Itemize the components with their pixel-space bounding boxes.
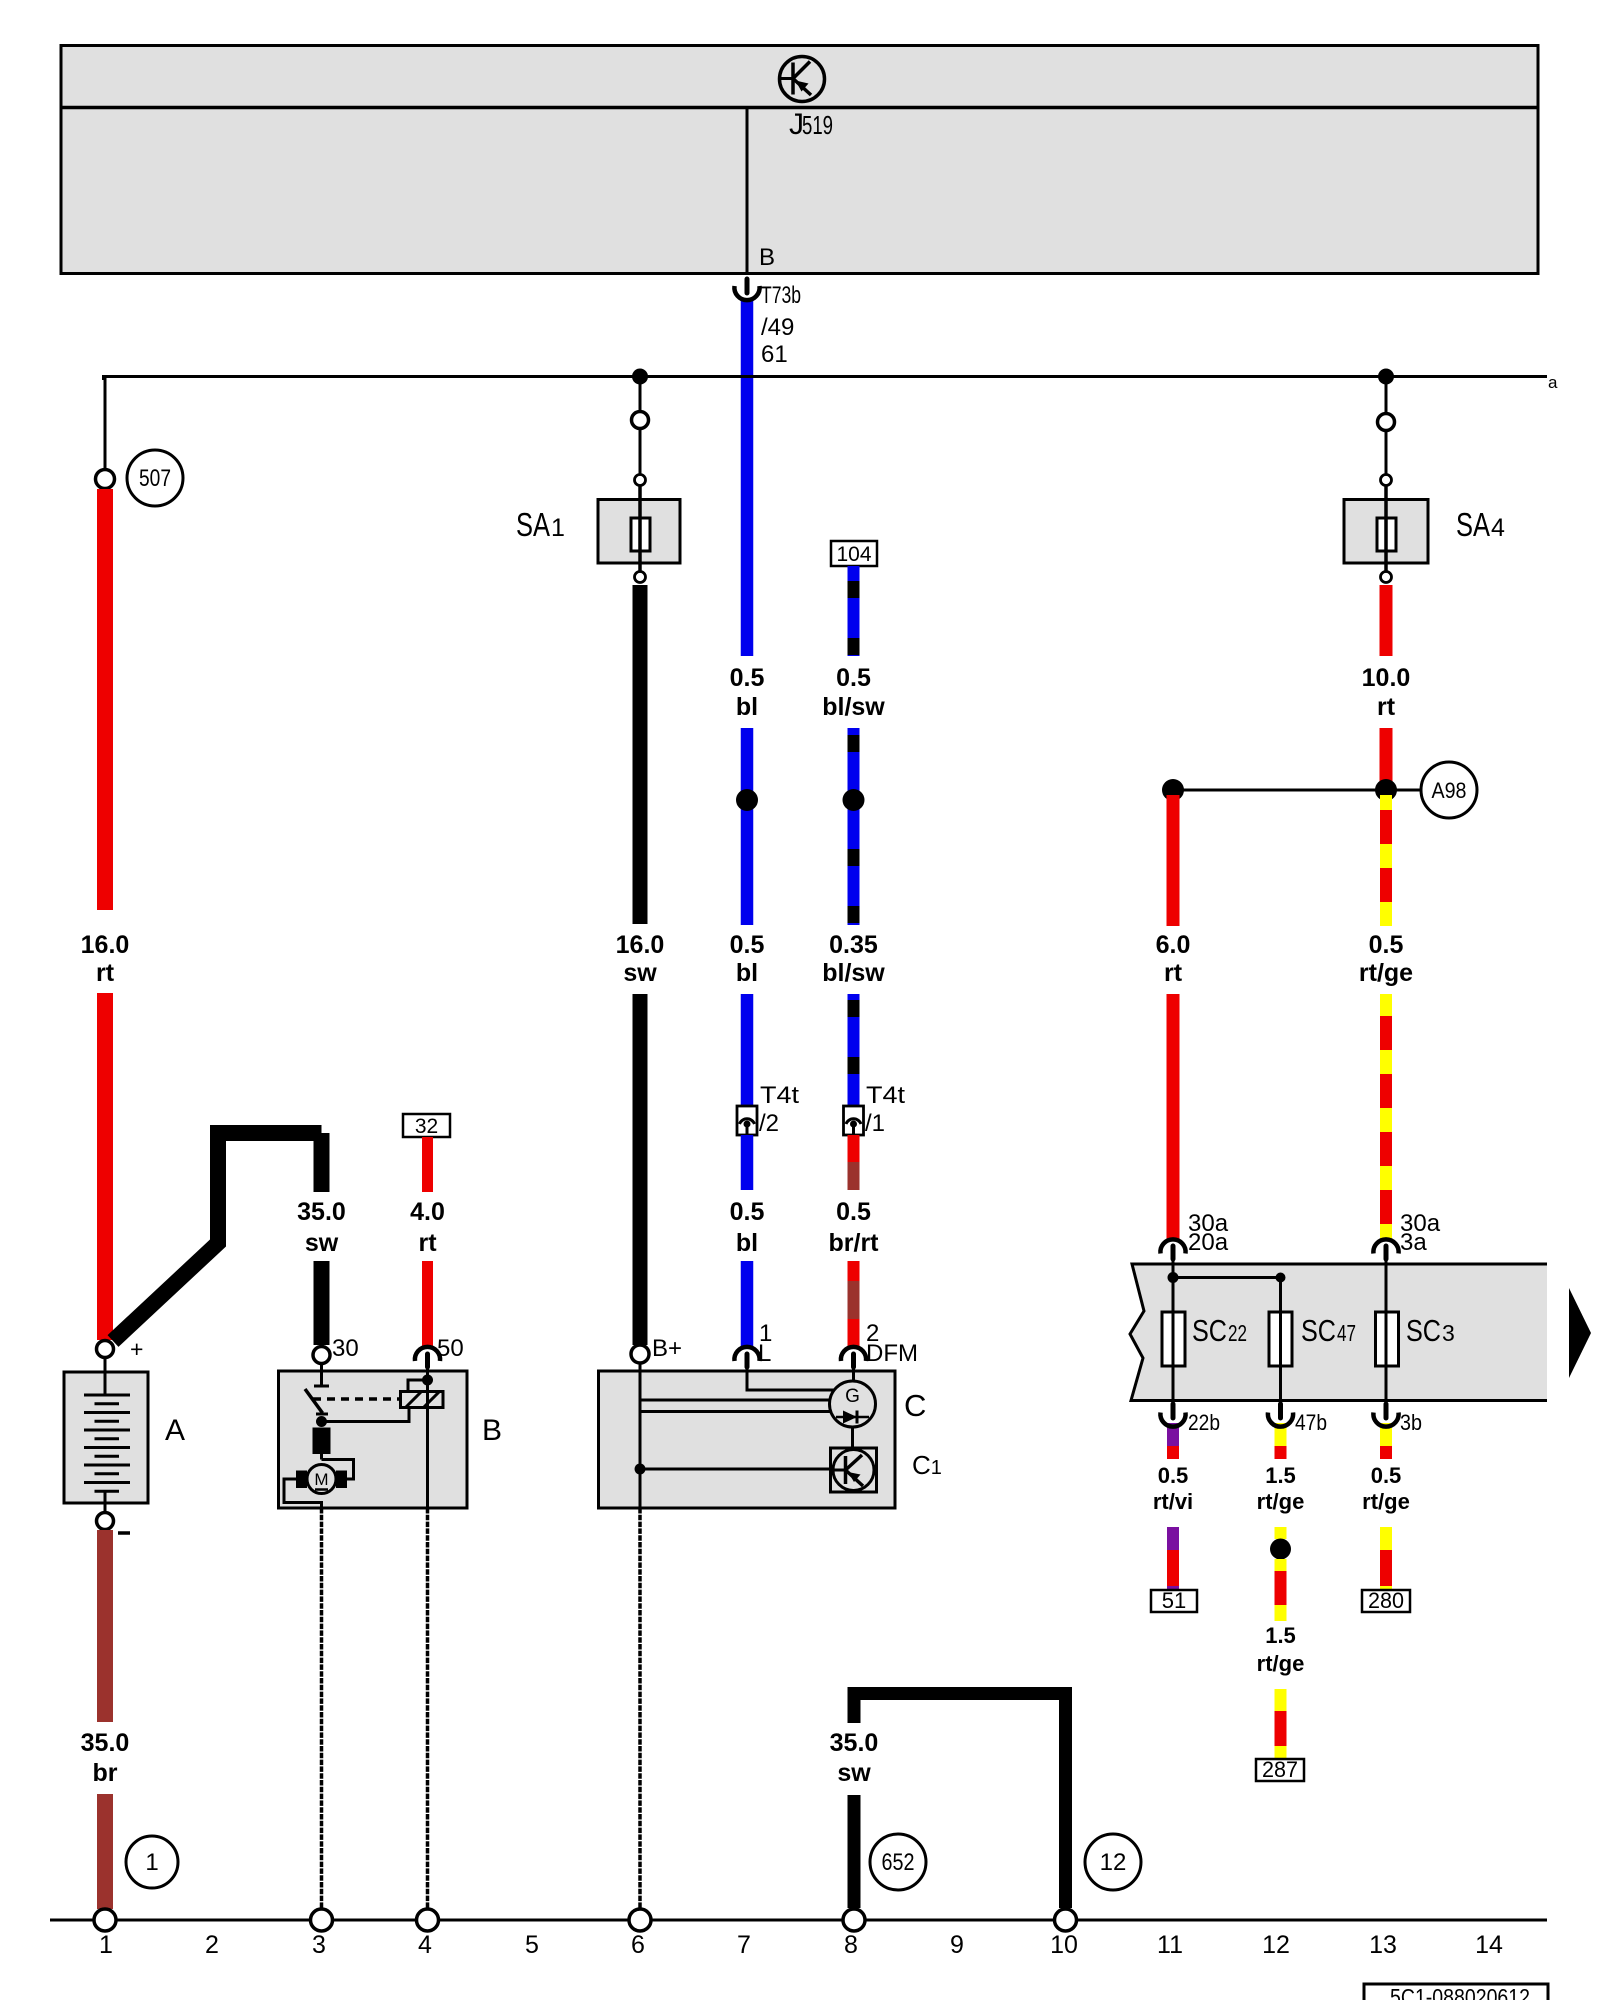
- svg-text:SC: SC: [1406, 1313, 1441, 1348]
- svg-text:0.5: 0.5: [836, 1198, 871, 1226]
- svg-text:L: L: [758, 1340, 771, 1367]
- svg-text:12: 12: [1262, 1931, 1290, 1959]
- svg-text:507: 507: [139, 465, 171, 492]
- svg-text:3b: 3b: [1400, 1410, 1422, 1435]
- ground rail terminal 4: [417, 1909, 439, 1931]
- svg-text:287: 287: [1262, 1757, 1298, 1782]
- wire 0.5 bl from J519 B: [741, 298, 754, 656]
- svg-text:B+: B+: [652, 1335, 682, 1362]
- wire 0.5 bl mid: [741, 728, 754, 925]
- svg-text:3: 3: [1442, 1320, 1455, 1346]
- voltage regulator C1 symbol: [831, 1448, 877, 1492]
- svg-text:61: 61: [761, 341, 788, 368]
- svg-text:13: 13: [1369, 1931, 1397, 1959]
- generator G symbol: [830, 1381, 876, 1427]
- svg-text:B: B: [482, 1414, 502, 1447]
- ground rail terminal 1: [94, 1909, 116, 1931]
- relay contact wire: [322, 1408, 410, 1422]
- wire 35.0 sw lower: [314, 1261, 330, 1345]
- svg-text:50: 50: [437, 1335, 464, 1362]
- fuse SC47 element: [1269, 1312, 1292, 1366]
- svg-text:bl: bl: [736, 1229, 758, 1257]
- svg-text:10: 10: [1050, 1931, 1078, 1959]
- svg-text:C: C: [904, 1388, 926, 1423]
- svg-text:1: 1: [551, 514, 565, 542]
- svg-text:30: 30: [332, 1335, 359, 1362]
- connector T4t/2: [737, 1106, 757, 1135]
- wire G to regulator: [851, 1427, 854, 1448]
- wire br/rt to pin DFM: [848, 1261, 860, 1281]
- svg-text:11: 11: [1157, 1931, 1183, 1959]
- SA4 upper lead: [1385, 384, 1388, 413]
- ground rail terminal 10: [1055, 1909, 1077, 1931]
- svg-text:rt/vi: rt/vi: [1153, 1489, 1193, 1514]
- junction dot on B+ wire: [635, 1464, 646, 1475]
- svg-text:0.35: 0.35: [829, 931, 878, 959]
- svg-text:M: M: [314, 1470, 328, 1489]
- designation circle 507: [127, 450, 183, 506]
- junction on rail at SA1: [632, 369, 648, 385]
- wire 1.5 rt/ge stub: [1275, 1423, 1287, 1446]
- box 32: [403, 1114, 450, 1137]
- wire alternator B+ to rail: [638, 1508, 642, 1909]
- ground rail terminal 8: [843, 1909, 865, 1931]
- svg-text:A98: A98: [1432, 778, 1467, 803]
- wire left drop to terminal 507: [104, 377, 107, 471]
- wire 10.0 rt lower: [1380, 728, 1393, 790]
- wire 1.5 rt/ge mid: [1275, 1527, 1287, 1539]
- wire 4.0 rt upper: [422, 1137, 433, 1192]
- svg-text:35.0: 35.0: [830, 1729, 879, 1757]
- svg-text:G: G: [845, 1386, 860, 1407]
- svg-text:51: 51: [1162, 1588, 1186, 1613]
- wire from divider to terminal B: [746, 108, 749, 273]
- svg-text:32: 32: [415, 1115, 438, 1138]
- svg-text:3a: 3a: [1400, 1229, 1427, 1256]
- svg-text:A: A: [165, 1414, 185, 1447]
- fuse SA4 box: [1344, 500, 1428, 564]
- svg-text:0.5: 0.5: [1158, 1463, 1189, 1488]
- svg-text:22b: 22b: [1188, 1410, 1220, 1435]
- wire through SC22: [1172, 1261, 1175, 1402]
- junction A98 node: [1375, 779, 1397, 801]
- svg-text:3: 3: [312, 1931, 326, 1959]
- wire 16.0 sw lower: [633, 994, 648, 1345]
- svg-text:4: 4: [1491, 514, 1505, 542]
- svg-text:20a: 20a: [1188, 1229, 1229, 1256]
- svg-text:SC: SC: [1301, 1313, 1336, 1348]
- svg-text:14: 14: [1475, 1931, 1503, 1959]
- svg-text:rt/ge: rt/ge: [1257, 1651, 1305, 1676]
- svg-text:bl: bl: [736, 693, 758, 721]
- box 280: [1362, 1590, 1410, 1612]
- part number box: [1364, 1984, 1548, 2000]
- alternator DFM internal wire: [852, 1364, 855, 1381]
- wire 6.0 rt upper: [1167, 795, 1180, 926]
- svg-text:rt: rt: [1377, 693, 1396, 721]
- svg-text:bl/sw: bl/sw: [822, 959, 885, 987]
- relay switch node: [316, 1416, 327, 1427]
- relay motor ground path: [284, 1479, 322, 1508]
- svg-text:7: 7: [737, 1931, 751, 1959]
- svg-text:16.0: 16.0: [616, 931, 665, 959]
- svg-text:0.5: 0.5: [1369, 931, 1404, 959]
- svg-text:5: 5: [525, 1931, 539, 1959]
- alternator stator leads: [640, 1399, 830, 1402]
- wire bl/sw mid: [848, 728, 860, 925]
- J519 box divider line: [61, 106, 1538, 110]
- svg-text:+: +: [130, 1336, 143, 1362]
- connector arc right: [1373, 1239, 1398, 1253]
- label minus: [118, 1531, 130, 1535]
- svg-text:652: 652: [882, 1849, 915, 1876]
- relay series element: [313, 1428, 331, 1455]
- svg-text:0.5: 0.5: [730, 931, 765, 959]
- wire relay M to rail: [320, 1508, 324, 1909]
- relay motor brushes: [296, 1471, 307, 1489]
- svg-text:0.5: 0.5: [730, 1198, 765, 1226]
- fuse panel SC box: [1130, 1264, 1547, 1401]
- ground rail terminal 3: [311, 1909, 333, 1931]
- fuse SA4 element: [1377, 518, 1396, 551]
- svg-text:104: 104: [836, 543, 871, 566]
- svg-text:519: 519: [802, 110, 833, 140]
- svg-text:bl/sw: bl/sw: [822, 693, 885, 721]
- relay motor M: [307, 1465, 336, 1494]
- wire 35.0 br lower: [97, 1794, 113, 1909]
- fuse SA1 element: [631, 518, 650, 551]
- alternator pin L arc: [734, 1347, 759, 1361]
- wire 0.5 bl lower: [741, 994, 754, 1106]
- svg-text:1.5: 1.5: [1265, 1463, 1296, 1488]
- svg-text:1.5: 1.5: [1265, 1623, 1296, 1648]
- svg-text:sw: sw: [837, 1759, 871, 1787]
- wire 0.5 rt/ge upper: [1380, 795, 1392, 926]
- connector T73b arc: [734, 286, 759, 300]
- connector 47b pin: [1278, 1404, 1283, 1418]
- relay actuation dashed line: [313, 1397, 400, 1401]
- wire 6.0 rt lower: [1167, 994, 1180, 1240]
- svg-text:/1: /1: [865, 1110, 885, 1137]
- SA1 upper lead: [639, 384, 642, 412]
- svg-text:rt/ge: rt/ge: [1359, 959, 1413, 987]
- box 51: [1151, 1590, 1197, 1612]
- fuse panel arrow: [1569, 1288, 1591, 1378]
- relay switch arm: [305, 1389, 323, 1413]
- svg-text:a: a: [1548, 373, 1558, 392]
- svg-text:rt: rt: [1164, 959, 1183, 987]
- terminal circle 507: [96, 470, 115, 489]
- wire 4.0 rt lower: [422, 1261, 433, 1347]
- svg-text:47b: 47b: [1295, 1410, 1327, 1435]
- connector T73b pin: [745, 279, 750, 293]
- wire 35.0 br upper: [97, 1530, 113, 1722]
- svg-text:T4t: T4t: [866, 1082, 905, 1109]
- J519 control unit symbol: [780, 57, 825, 102]
- ground designation circle 652: [870, 1834, 926, 1890]
- fuse SA1 box: [598, 500, 680, 564]
- relay pin 30 terminal: [313, 1347, 330, 1364]
- battery plates: [84, 1395, 130, 1491]
- wire 0.5 rt/ge stub right: [1380, 1423, 1392, 1446]
- svg-text:SA: SA: [1456, 506, 1490, 543]
- svg-text:br/rt: br/rt: [829, 1229, 880, 1257]
- wire 35.0 sw loop: [854, 1694, 1066, 1909]
- alternator C box: [599, 1371, 896, 1508]
- splice dot on bl: [736, 789, 758, 811]
- svg-text:47: 47: [1337, 1320, 1356, 1346]
- wire 0.5 bl below T4t: [741, 1135, 754, 1190]
- svg-text:0.5: 0.5: [836, 664, 871, 692]
- svg-text:4: 4: [418, 1931, 432, 1959]
- relay motor lead: [320, 1454, 323, 1460]
- svg-text:16.0: 16.0: [81, 931, 130, 959]
- svg-text:rt/ge: rt/ge: [1362, 1489, 1410, 1514]
- wire 0.5 bl/sw upper: [848, 566, 860, 656]
- alternator L internal wire: [747, 1364, 834, 1390]
- alternator B+ internal wire: [639, 1363, 642, 1508]
- battery A box: [64, 1372, 148, 1503]
- designation circle A98: [1421, 762, 1477, 818]
- svg-text:rt/ge: rt/ge: [1257, 1489, 1305, 1514]
- svg-text:/49: /49: [761, 314, 794, 341]
- wire 35.0 sw battery to relay: [113, 1133, 322, 1341]
- wire 16.0 sw upper: [633, 585, 648, 924]
- wire 0.5 rt/vi stub: [1167, 1423, 1179, 1446]
- wire junction to regulator: [640, 1468, 831, 1471]
- svg-text:6.0: 6.0: [1156, 931, 1191, 959]
- svg-text:35.0: 35.0: [297, 1198, 346, 1226]
- svg-text:sw: sw: [623, 959, 657, 987]
- svg-text:35.0: 35.0: [81, 1729, 130, 1757]
- box 104: [831, 541, 877, 566]
- connector arc left: [1160, 1239, 1185, 1253]
- svg-text:22: 22: [1228, 1320, 1247, 1346]
- svg-text:10.0: 10.0: [1362, 664, 1411, 692]
- svg-text:1: 1: [145, 1849, 158, 1876]
- battery negative terminal: [97, 1513, 114, 1530]
- splice dot on bl/sw: [843, 789, 865, 811]
- connector T4t/1: [844, 1106, 864, 1135]
- svg-text:T73b: T73b: [761, 282, 801, 309]
- svg-text:6: 6: [631, 1931, 645, 1959]
- svg-text:280: 280: [1368, 1588, 1404, 1613]
- svg-text:bl: bl: [736, 959, 758, 987]
- wire 0.5 rt/ge bottom: [1380, 1527, 1392, 1550]
- wire through SC47: [1279, 1278, 1282, 1403]
- wire relay 50 to rail: [426, 1508, 430, 1909]
- svg-text:SC: SC: [1192, 1313, 1227, 1348]
- svg-text:DFM: DFM: [866, 1340, 918, 1367]
- svg-text:0.5: 0.5: [1371, 1463, 1402, 1488]
- relay 50 internal wire: [426, 1364, 429, 1508]
- wire 0.5 bl to pin L: [741, 1261, 754, 1349]
- alternator pin DFM arc: [841, 1347, 866, 1361]
- panel internal bridge: [1173, 1276, 1281, 1279]
- wire through SC3: [1385, 1261, 1388, 1402]
- wire 10.0 rt: [1380, 585, 1393, 656]
- wire 0.5 rt/ge lower: [1380, 994, 1392, 1240]
- svg-text:rt: rt: [418, 1229, 437, 1257]
- junction on rail at SA4: [1378, 369, 1394, 385]
- svg-text:sw: sw: [305, 1229, 339, 1257]
- wire 1.5 rt/ge bottom: [1275, 1689, 1287, 1711]
- connector 22b pin: [1171, 1404, 1176, 1418]
- svg-text:12: 12: [1100, 1849, 1127, 1876]
- relay coil: [401, 1392, 444, 1408]
- svg-text:SA: SA: [516, 506, 550, 543]
- svg-text:2: 2: [205, 1931, 219, 1959]
- battery internal leads: [104, 1358, 107, 1396]
- wire rail a: [104, 375, 1548, 378]
- relay coil jog to 50: [408, 1380, 428, 1392]
- svg-text:/2: /2: [759, 1110, 779, 1137]
- ground designation circle 12: [1085, 1834, 1141, 1890]
- starter relay B box: [279, 1371, 468, 1508]
- svg-text:9: 9: [950, 1931, 964, 1959]
- wire 16.0 rt upper: [97, 489, 113, 910]
- wire 16.0 rt lower: [97, 993, 113, 1340]
- relay 30 lead: [320, 1363, 323, 1386]
- wire junction A98 horizontal: [1173, 789, 1421, 792]
- svg-text:5C1-088020612: 5C1-088020612: [1390, 1984, 1530, 2000]
- relay pin 50 arc: [415, 1347, 440, 1361]
- svg-text:br: br: [93, 1759, 118, 1787]
- svg-text:rt: rt: [96, 959, 115, 987]
- svg-text:1: 1: [99, 1931, 113, 1959]
- ground rail terminal 6: [629, 1909, 651, 1931]
- grid numbers: [99, 1931, 1503, 1959]
- alternator pin B+ terminal: [631, 1345, 649, 1363]
- fuse SC3 element: [1376, 1312, 1399, 1366]
- svg-text:4.0: 4.0: [410, 1198, 445, 1226]
- relay pin 50 pin: [425, 1354, 430, 1367]
- connector 3b pin: [1384, 1404, 1389, 1418]
- box 287: [1256, 1759, 1304, 1781]
- battery positive terminal: [97, 1341, 114, 1358]
- wire 0.5 rt/vi lower: [1167, 1527, 1179, 1550]
- wire 35.0 sw loop lower left: [848, 1795, 861, 1908]
- wire 35.0 sw drop to relay pin 30: [314, 1133, 330, 1192]
- control unit J519 box: [61, 46, 1538, 274]
- svg-text:B: B: [759, 244, 775, 271]
- ground rail: [50, 1919, 1547, 1922]
- ground designation circle 1: [126, 1836, 178, 1888]
- svg-text:0.5: 0.5: [730, 664, 765, 692]
- fuse SC22 element: [1162, 1312, 1185, 1366]
- svg-text:T4t: T4t: [760, 1082, 799, 1109]
- wire bl/sw lower: [848, 994, 860, 1106]
- wire 0.5 br/rt below T4t: [848, 1135, 860, 1162]
- svg-text:8: 8: [844, 1931, 858, 1959]
- junction node left: [1162, 779, 1184, 801]
